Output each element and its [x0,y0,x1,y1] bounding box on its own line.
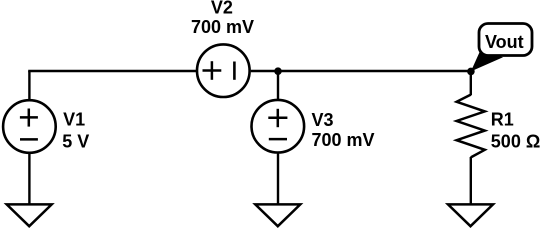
wire from V1 top to top-left corner [28,71,30,100]
ground under V1 [7,204,52,226]
voltage source V2 (horizontal, circle body) [197,44,250,97]
V2 minus sign (vertical bar) [233,62,236,80]
svg-text:700 mV: 700 mV [312,130,375,150]
V1 minus sign [20,138,38,141]
node flag Vout pointer tail [471,50,503,71]
V3 minus sign [269,138,287,141]
svg-text:500 Ω: 500 Ω [491,131,540,151]
svg-text:V3: V3 [312,110,334,130]
voltage source V3 (circle body) [251,100,304,153]
svg-text:V2: V2 [211,0,233,17]
svg-text:700 mV: 700 mV [191,17,254,37]
wire node to V3 top [277,71,279,100]
ground under R1 [448,204,493,226]
wire from V2 right terminal to node Vout [251,70,471,72]
junction dot at node Vout [467,68,475,76]
voltage source V1 (circle body) [3,100,56,153]
junction dot at V3 top node [274,67,282,75]
wire R1 bottom to ground [470,157,472,204]
svg-text:V1: V1 [63,109,85,129]
svg-text:5 V: 5 V [62,131,89,151]
V2 plus sign [203,61,222,80]
node flag Vout box [479,24,532,56]
wire V3 bottom to ground [277,153,279,204]
svg-text:Vout: Vout [485,32,524,52]
ground under V3 [255,204,300,226]
V1 plus sign [20,109,38,127]
svg-text:R1: R1 [491,109,514,129]
resistor R1 zigzag [457,95,485,158]
wire node to resistor R1 top [470,71,472,95]
wire top horizontal from corner to V2 left terminal [28,70,196,72]
wire V1 bottom to ground [28,153,30,203]
V3 plus sign [268,109,287,127]
